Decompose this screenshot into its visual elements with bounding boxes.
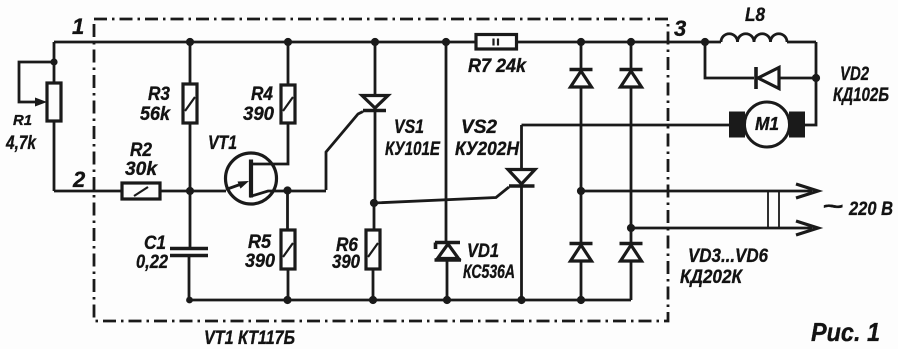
svg-text:0,22: 0,22 xyxy=(136,252,168,273)
svg-text:КУ101Е: КУ101Е xyxy=(385,139,441,160)
wire VS2 anode to motor xyxy=(522,124,730,127)
resistor R2 xyxy=(122,183,190,199)
svg-text:C1: C1 xyxy=(144,233,166,254)
svg-text:VD2: VD2 xyxy=(840,64,869,85)
thyristor VS2 xyxy=(508,125,535,304)
svg-text:Рис. 1: Рис. 1 xyxy=(811,317,880,347)
arrowhead AC line 1 xyxy=(796,184,818,198)
wire right vertical xyxy=(805,42,816,125)
svg-text:М1: М1 xyxy=(755,114,779,134)
svg-text:390: 390 xyxy=(243,104,274,125)
svg-text:390: 390 xyxy=(332,252,360,273)
node VS1 cathode junction xyxy=(370,199,378,207)
svg-text:L8: L8 xyxy=(745,5,765,26)
diode VD2 xyxy=(701,38,820,89)
svg-text:3: 3 xyxy=(674,16,686,41)
node B1 junction xyxy=(283,186,291,194)
plug bars X1 xyxy=(768,191,779,228)
resistor R1 xyxy=(19,42,61,191)
diode VD3 bridge top-left xyxy=(570,38,593,191)
inductor L8 xyxy=(721,34,787,42)
svg-text:VS1: VS1 xyxy=(394,117,424,138)
node AC tap right xyxy=(627,224,635,232)
svg-text:56k: 56k xyxy=(140,104,171,125)
svg-text:30k: 30k xyxy=(125,159,158,180)
capacitor C1 xyxy=(170,191,208,300)
node AC tap left xyxy=(577,187,585,195)
resistor R6 xyxy=(366,203,380,304)
zener diode VD1 xyxy=(435,38,462,304)
motor M1 xyxy=(729,102,805,147)
svg-text:КД202К: КД202К xyxy=(680,267,743,288)
svg-text:4,7k: 4,7k xyxy=(5,133,37,154)
resistor R7 xyxy=(476,35,517,50)
wire top rail left xyxy=(54,41,476,44)
thyristor VS1 xyxy=(326,38,388,203)
wire node2 row xyxy=(54,190,122,193)
diode VD5 bridge bottom-left xyxy=(570,191,593,304)
diode VD6 bridge bottom-right xyxy=(620,228,643,300)
svg-text:1: 1 xyxy=(72,14,84,39)
svg-text:390: 390 xyxy=(245,251,275,272)
svg-text:R7 24k: R7 24k xyxy=(468,56,527,77)
svg-text:R4: R4 xyxy=(251,84,273,105)
wire top rail right xyxy=(516,41,816,44)
svg-text:VD3...VD6: VD3...VD6 xyxy=(688,246,768,267)
dashed enclosure border xyxy=(94,19,668,321)
svg-text:VT1: VT1 xyxy=(208,133,237,154)
svg-text:2: 2 xyxy=(72,167,86,192)
transistor VT1 xyxy=(226,153,327,204)
wire AC line 1 xyxy=(581,190,812,193)
svg-text:КУ202Н: КУ202Н xyxy=(455,139,520,160)
svg-text:VS2: VS2 xyxy=(461,117,497,138)
svg-text:~: ~ xyxy=(822,193,843,219)
svg-text:220 В: 220 В xyxy=(848,199,893,220)
svg-text:VT1 КТ117Б: VT1 КТ117Б xyxy=(204,328,295,349)
wire to emitter xyxy=(190,190,226,193)
svg-text:R2: R2 xyxy=(130,140,152,161)
svg-text:КД102Б: КД102Б xyxy=(833,85,889,106)
arrowhead AC line 2 xyxy=(796,221,818,235)
wire VS2 gate xyxy=(374,187,509,203)
wire AC line 2 xyxy=(631,227,812,230)
wire bottom rail xyxy=(189,299,631,302)
node R2-R3 junction xyxy=(186,187,194,195)
svg-text:VD1: VD1 xyxy=(467,241,499,262)
diode VD4 bridge top-right xyxy=(620,38,643,228)
svg-text:КС536А: КС536А xyxy=(463,262,515,283)
resistor R4 xyxy=(253,38,295,164)
svg-text:R5: R5 xyxy=(248,232,271,253)
svg-text:R1: R1 xyxy=(13,112,32,129)
node rail corner xyxy=(186,297,193,304)
svg-text:R3: R3 xyxy=(148,84,170,105)
resistor R5 xyxy=(281,191,295,305)
resistor R3 xyxy=(183,38,197,191)
